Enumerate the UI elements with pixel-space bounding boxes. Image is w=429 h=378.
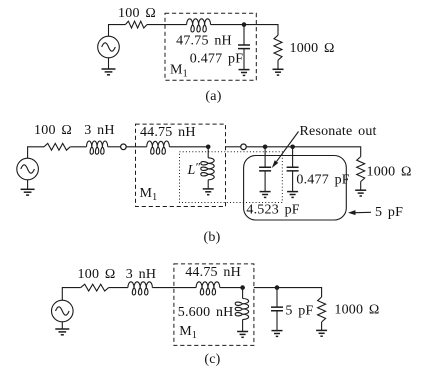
svg-text:47.75 nH: 47.75 nH [176, 34, 232, 49]
wire (b): port node 2 to load corner [247, 147, 361, 157]
ground (b): load [355, 190, 366, 196]
svg-text:(b): (b) [204, 230, 221, 245]
resistor R1 100 ohm (a) [125, 21, 147, 28]
junction dot shunt (c) [240, 285, 245, 290]
ac source V1 (c) [52, 300, 74, 322]
svg-text:44.75 nH: 44.75 nH [140, 125, 196, 140]
svg-text:3 nH: 3 nH [84, 123, 114, 138]
svg-text:5 pF: 5 pF [285, 303, 313, 318]
wire (c): inductor to node [220, 287, 243, 289]
resistor RL 1000 ohm (b) [357, 157, 365, 182]
ac source V1 (b) [17, 158, 39, 180]
ground (b): capacitor 0.477 pF [287, 192, 298, 198]
svg-text:5 pF: 5 pF [375, 205, 403, 220]
junction dot (a) [242, 22, 247, 27]
svg-text:4.523 pF: 4.523 pF [246, 202, 299, 217]
svg-text:(c): (c) [204, 352, 220, 367]
junction dot capacitor (c) [275, 285, 280, 290]
svg-text:0.477 pF: 0.477 pF [296, 172, 349, 187]
5 pF equivalent rounded box (b) [244, 156, 347, 221]
arrow: 5 pF to rounded box (b) [348, 210, 371, 215]
svg-text:100 Ω: 100 Ω [34, 123, 72, 138]
wire (a): resistor to inductor [147, 24, 187, 26]
ground (b): capacitor 4.523 pF [260, 192, 271, 198]
svg-text:L″: L″ [187, 160, 202, 179]
wire (b): port node to 44.75 nH inductor [127, 146, 147, 148]
svg-text:3 nH: 3 nH [126, 267, 156, 282]
svg-text:Resonate out: Resonate out [300, 124, 377, 139]
resonated-out pair dotted box (b) [180, 152, 283, 203]
wire (a): source to ground [108, 58, 110, 69]
shunt inductor 5.600 nH (c) [235, 299, 248, 320]
ground (c): capacitor [272, 331, 283, 337]
ground (b): source [21, 189, 35, 195]
junction dot C2 (b) [290, 145, 295, 150]
wire (a): load resistor to ground [277, 60, 279, 69]
matching network box M1 (a) [165, 13, 256, 80]
ground (a): load [273, 69, 284, 75]
wire (c): shunt inductor to ground [242, 320, 244, 332]
wire (b): shunt inductor to ground [207, 180, 209, 189]
ac source V1 (a) [98, 36, 120, 58]
capacitor 0.477 pF (a) [238, 25, 250, 69]
port node circle 1 (b) [121, 144, 127, 150]
wire (c): load resistor to ground [321, 322, 323, 330]
matching network box M1 (c) [174, 264, 254, 346]
wire (b): node A to shunt inductor [207, 147, 209, 158]
wire (b): inductor to node A [169, 146, 208, 148]
wire (c): 3 nH inductor to 44.75 nH inductor [152, 287, 196, 289]
junction dot node A (b) [206, 145, 211, 150]
inductor 47.75 nH (a) [187, 19, 211, 32]
wire (b): box to port node 2 [226, 146, 241, 148]
inductor 3 nH (c) [128, 282, 152, 295]
ground (c): shunt inductor [237, 332, 248, 338]
inductor 44.75 nH (c) [196, 282, 220, 295]
ground (c): load [316, 330, 327, 336]
wire (b): resistor to 3 nH inductor [70, 146, 86, 148]
resistor R1 100 ohm (b) [44, 143, 70, 150]
wire (b): load resistor to ground [360, 182, 362, 190]
wire (c): source to ground [61, 322, 63, 329]
svg-text:1000 Ω: 1000 Ω [367, 165, 412, 180]
wire (b): source to ground [27, 180, 29, 190]
resistor RL 1000 ohm (a) [274, 35, 282, 60]
matching network box M1 (b) [136, 124, 226, 206]
svg-text:M1: M1 [179, 324, 197, 341]
wire (b): 3 nH inductor to port node [108, 146, 121, 148]
svg-text:1000 Ω: 1000 Ω [334, 302, 379, 317]
capacitor 4.523 pF (b) [259, 147, 271, 192]
inductor 44.75 nH (b) [147, 141, 170, 154]
arrow: resonate out to capacitor (b) [272, 132, 299, 169]
wire (a): inductor to node [211, 24, 244, 26]
resistor RL 1000 ohm (c) [318, 297, 326, 322]
svg-text:M1: M1 [140, 186, 158, 203]
ground (a): capacitor [239, 70, 250, 76]
shunt inductor L&#8243; (b) [201, 158, 214, 180]
port node circle 2 (b) [241, 144, 247, 150]
ground (c): source [55, 329, 69, 335]
wire (c): source to 100-ohm resistor [62, 288, 80, 301]
svg-text:1000 Ω: 1000 Ω [290, 41, 335, 56]
capacitor 0.477 pF (b) [287, 147, 299, 192]
wire (c): resistor to 3 nH inductor [109, 287, 128, 289]
svg-text:(a): (a) [205, 89, 221, 104]
resistor R1 100 ohm (c) [81, 284, 109, 291]
wire (c): node to load resistor [277, 288, 322, 297]
wire (c): node to shunt inductor [242, 288, 244, 299]
ground (b): shunt inductor [203, 189, 214, 195]
svg-text:M1: M1 [170, 63, 188, 80]
wire (c): box to capacitor node [254, 287, 277, 289]
svg-text:5.600 nH: 5.600 nH [178, 305, 234, 320]
junction dot C1 (b) [263, 145, 268, 150]
inductor 3 nH (b) [87, 141, 108, 154]
wire (a): source to 100-ohm resistor [109, 25, 126, 37]
wire (a): node to load resistor [244, 25, 278, 36]
svg-text:44.75 nH: 44.75 nH [185, 265, 241, 280]
svg-text:0.477 pF: 0.477 pF [190, 52, 243, 67]
svg-text:100 Ω: 100 Ω [78, 267, 116, 282]
wire (b): source to 100-ohm resistor [28, 147, 44, 158]
svg-text:100 Ω: 100 Ω [118, 6, 156, 21]
ground (a): source [102, 69, 116, 75]
capacitor 5 pF (c) [271, 288, 283, 331]
